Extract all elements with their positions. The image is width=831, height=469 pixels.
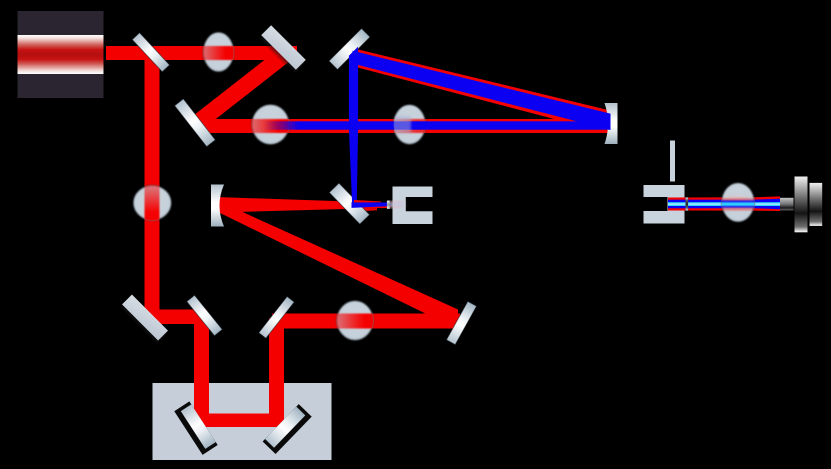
lens LB	[394, 105, 426, 145]
mirror M3	[329, 28, 370, 69]
laser gain stripe	[18, 35, 104, 74]
blue beam vertical M3 to dichroic	[349, 47, 358, 206]
focus glow in sample	[389, 201, 407, 203]
lens L4	[337, 301, 373, 340]
red beam D2 up to BL3	[269, 318, 284, 424]
iris bar before detector lens	[686, 198, 689, 211]
sample cuvette holder C1	[393, 187, 433, 225]
curved mirror CM1	[211, 185, 224, 227]
red beam BL3 to M4	[272, 314, 460, 329]
lens LV (vertical beam)	[133, 186, 171, 221]
lens LA (white light)	[252, 105, 289, 145]
detector beam blue	[668, 199, 780, 209]
curved mirror CM2	[605, 103, 618, 144]
detector beam cyan core	[668, 202, 780, 206]
red beam diagonal M4 to CM1	[216, 200, 458, 330]
blue beam row2 (fades in at lens LA)	[258, 121, 611, 129]
mirror BL3	[259, 297, 294, 339]
sample cell window bar	[387, 201, 390, 209]
detector bar 1	[795, 177, 808, 233]
mirror M4	[446, 301, 476, 344]
red beam diagonal CM2 to M3 (red underlay)	[352, 48, 611, 134]
delay mirror D1 with black backing	[174, 401, 217, 454]
flow cell holder C2	[644, 185, 685, 224]
mirror BL2	[187, 295, 222, 335]
dichroic mirror D	[329, 183, 369, 224]
red beam vertical BS1 down to BL1	[145, 52, 160, 322]
stir rod	[670, 141, 675, 182]
red beam taper CM1 to sample	[216, 197, 388, 213]
blue beam taper dichroic to sample	[352, 202, 389, 208]
red beam BL2 down to D1	[194, 313, 209, 421]
beamsplitter BS1	[132, 33, 169, 72]
red beam laser to M1	[106, 46, 297, 60]
lens LB glow overlay	[393, 116, 411, 133]
mirror M1	[259, 25, 307, 73]
red beam row2 M2 to CM2	[198, 119, 611, 133]
delay stage box	[153, 383, 332, 460]
red tail below focus	[352, 208, 377, 212]
delay mirror D2 with black backing	[263, 404, 312, 454]
detector bar 2	[810, 183, 823, 226]
red beam BL1 to BL2	[150, 310, 207, 325]
lens L1	[203, 32, 233, 71]
laser head box	[18, 11, 104, 98]
detector beam red base	[668, 196, 780, 211]
mirror M2	[175, 99, 216, 147]
detector lens LC	[722, 183, 755, 222]
blue beam diagonal CM2 to M3	[353, 51, 611, 130]
red fringe above blue after dichroic	[354, 200, 381, 202]
red beam D1 to D2	[196, 414, 282, 428]
spectrometer entrance block	[780, 198, 794, 211]
red beam diagonal M1 to M2	[191, 46, 293, 131]
detector beam bright core	[668, 203, 780, 205]
mirror BL1	[120, 295, 169, 344]
